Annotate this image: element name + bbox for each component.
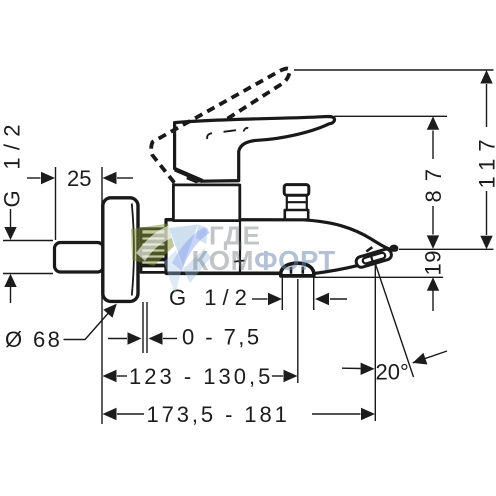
gem green facet (131, 224, 174, 267)
wire: spout tip reference line y=249.3 (399, 248, 494, 250)
dim diameter 68 with leader (64, 310, 112, 340)
cartridge block (173, 185, 239, 221)
gem blue triangle (169, 225, 198, 267)
svg-text:87: 87 (421, 160, 446, 202)
union nut with thread (141, 229, 167, 273)
dim 117 (486, 84, 488, 235)
svg-text:173,5 - 181: 173,5 - 181 (147, 402, 290, 427)
tip tick mark (366, 247, 372, 251)
wall pipe stub G1/2 (55, 243, 104, 273)
gem pale bottom (183, 249, 211, 283)
lever wedge sliver (187, 176, 205, 183)
gem white streak over green (136, 226, 174, 262)
svg-text:25: 25 (67, 166, 91, 191)
gem small blue top right (196, 225, 208, 245)
body seam (239, 221, 241, 273)
svg-text:0 - 7,5: 0 - 7,5 (182, 325, 262, 350)
dim 0 - 7,5 (108, 338, 177, 340)
svg-text:G 1/2: G 1/2 (0, 117, 25, 207)
wire: foot right extension x=313.7 (313, 278, 315, 311)
wire: wall plane extension line x=102 (101, 167, 103, 424)
wire: pipe top extension line (3, 240, 53, 242)
dim 123 - 130,5 (117, 375, 283, 377)
lever surface marks (207, 133, 212, 139)
svg-text:G 1/2: G 1/2 (169, 285, 253, 310)
lever bottom slant thick edge (175, 169, 203, 181)
node: tick mark in body (234, 261, 245, 262)
dim G 1/2 left (pipe thread) (10, 209, 12, 303)
dim 20 degrees (342, 367, 361, 369)
gem periwinkle band (172, 228, 210, 272)
dashed lever raised position (151, 69, 290, 183)
wire: lever tip reference line y=116 (334, 115, 447, 117)
collar under lever (174, 181, 240, 185)
dim 19 (432, 291, 434, 312)
watermark (131, 221, 336, 296)
svg-text:19: 19 (421, 250, 446, 275)
svg-text:123 - 130,5: 123 - 130,5 (129, 364, 273, 389)
svg-text:20°: 20° (376, 360, 409, 385)
wire: left extension line x=55.5 (55, 167, 57, 240)
svg-text:Ø 68: Ø 68 (5, 327, 62, 352)
wire: top reference line y=70 from dashed lever tip (294, 69, 494, 71)
dim 25 (27, 177, 133, 179)
dim G 1/2 bottom (foot) (252, 298, 347, 300)
wire: aerator centre extension x=375.3 (374, 265, 376, 421)
diverter knob (284, 185, 309, 220)
escutcheon (103, 198, 138, 302)
wire: extension line x=147 (146, 302, 148, 353)
svg-text:КОМФОРТ: КОМФОРТ (192, 245, 336, 276)
aerator (angled) (355, 248, 393, 268)
wire: extension line x=143 (142, 302, 144, 353)
dim 173,5 - 181 (117, 413, 361, 415)
lever handle (175, 116, 335, 181)
wire: foot centre extension x=297.8 (297, 279, 299, 383)
foot (G1/2 outlet bump) (281, 263, 314, 276)
body bottom thick edge (166, 271, 282, 275)
wire: spout underside reference line y=277.3 (314, 276, 443, 278)
wire: foot left extension x=282.3 (281, 278, 283, 311)
wire: pipe bottom extension line (3, 273, 53, 275)
mixer body and spout (166, 220, 397, 274)
wire: 20 degree slant line (376, 265, 414, 378)
svg-text:117: 117 (475, 132, 496, 188)
dim 87 (432, 131, 434, 235)
